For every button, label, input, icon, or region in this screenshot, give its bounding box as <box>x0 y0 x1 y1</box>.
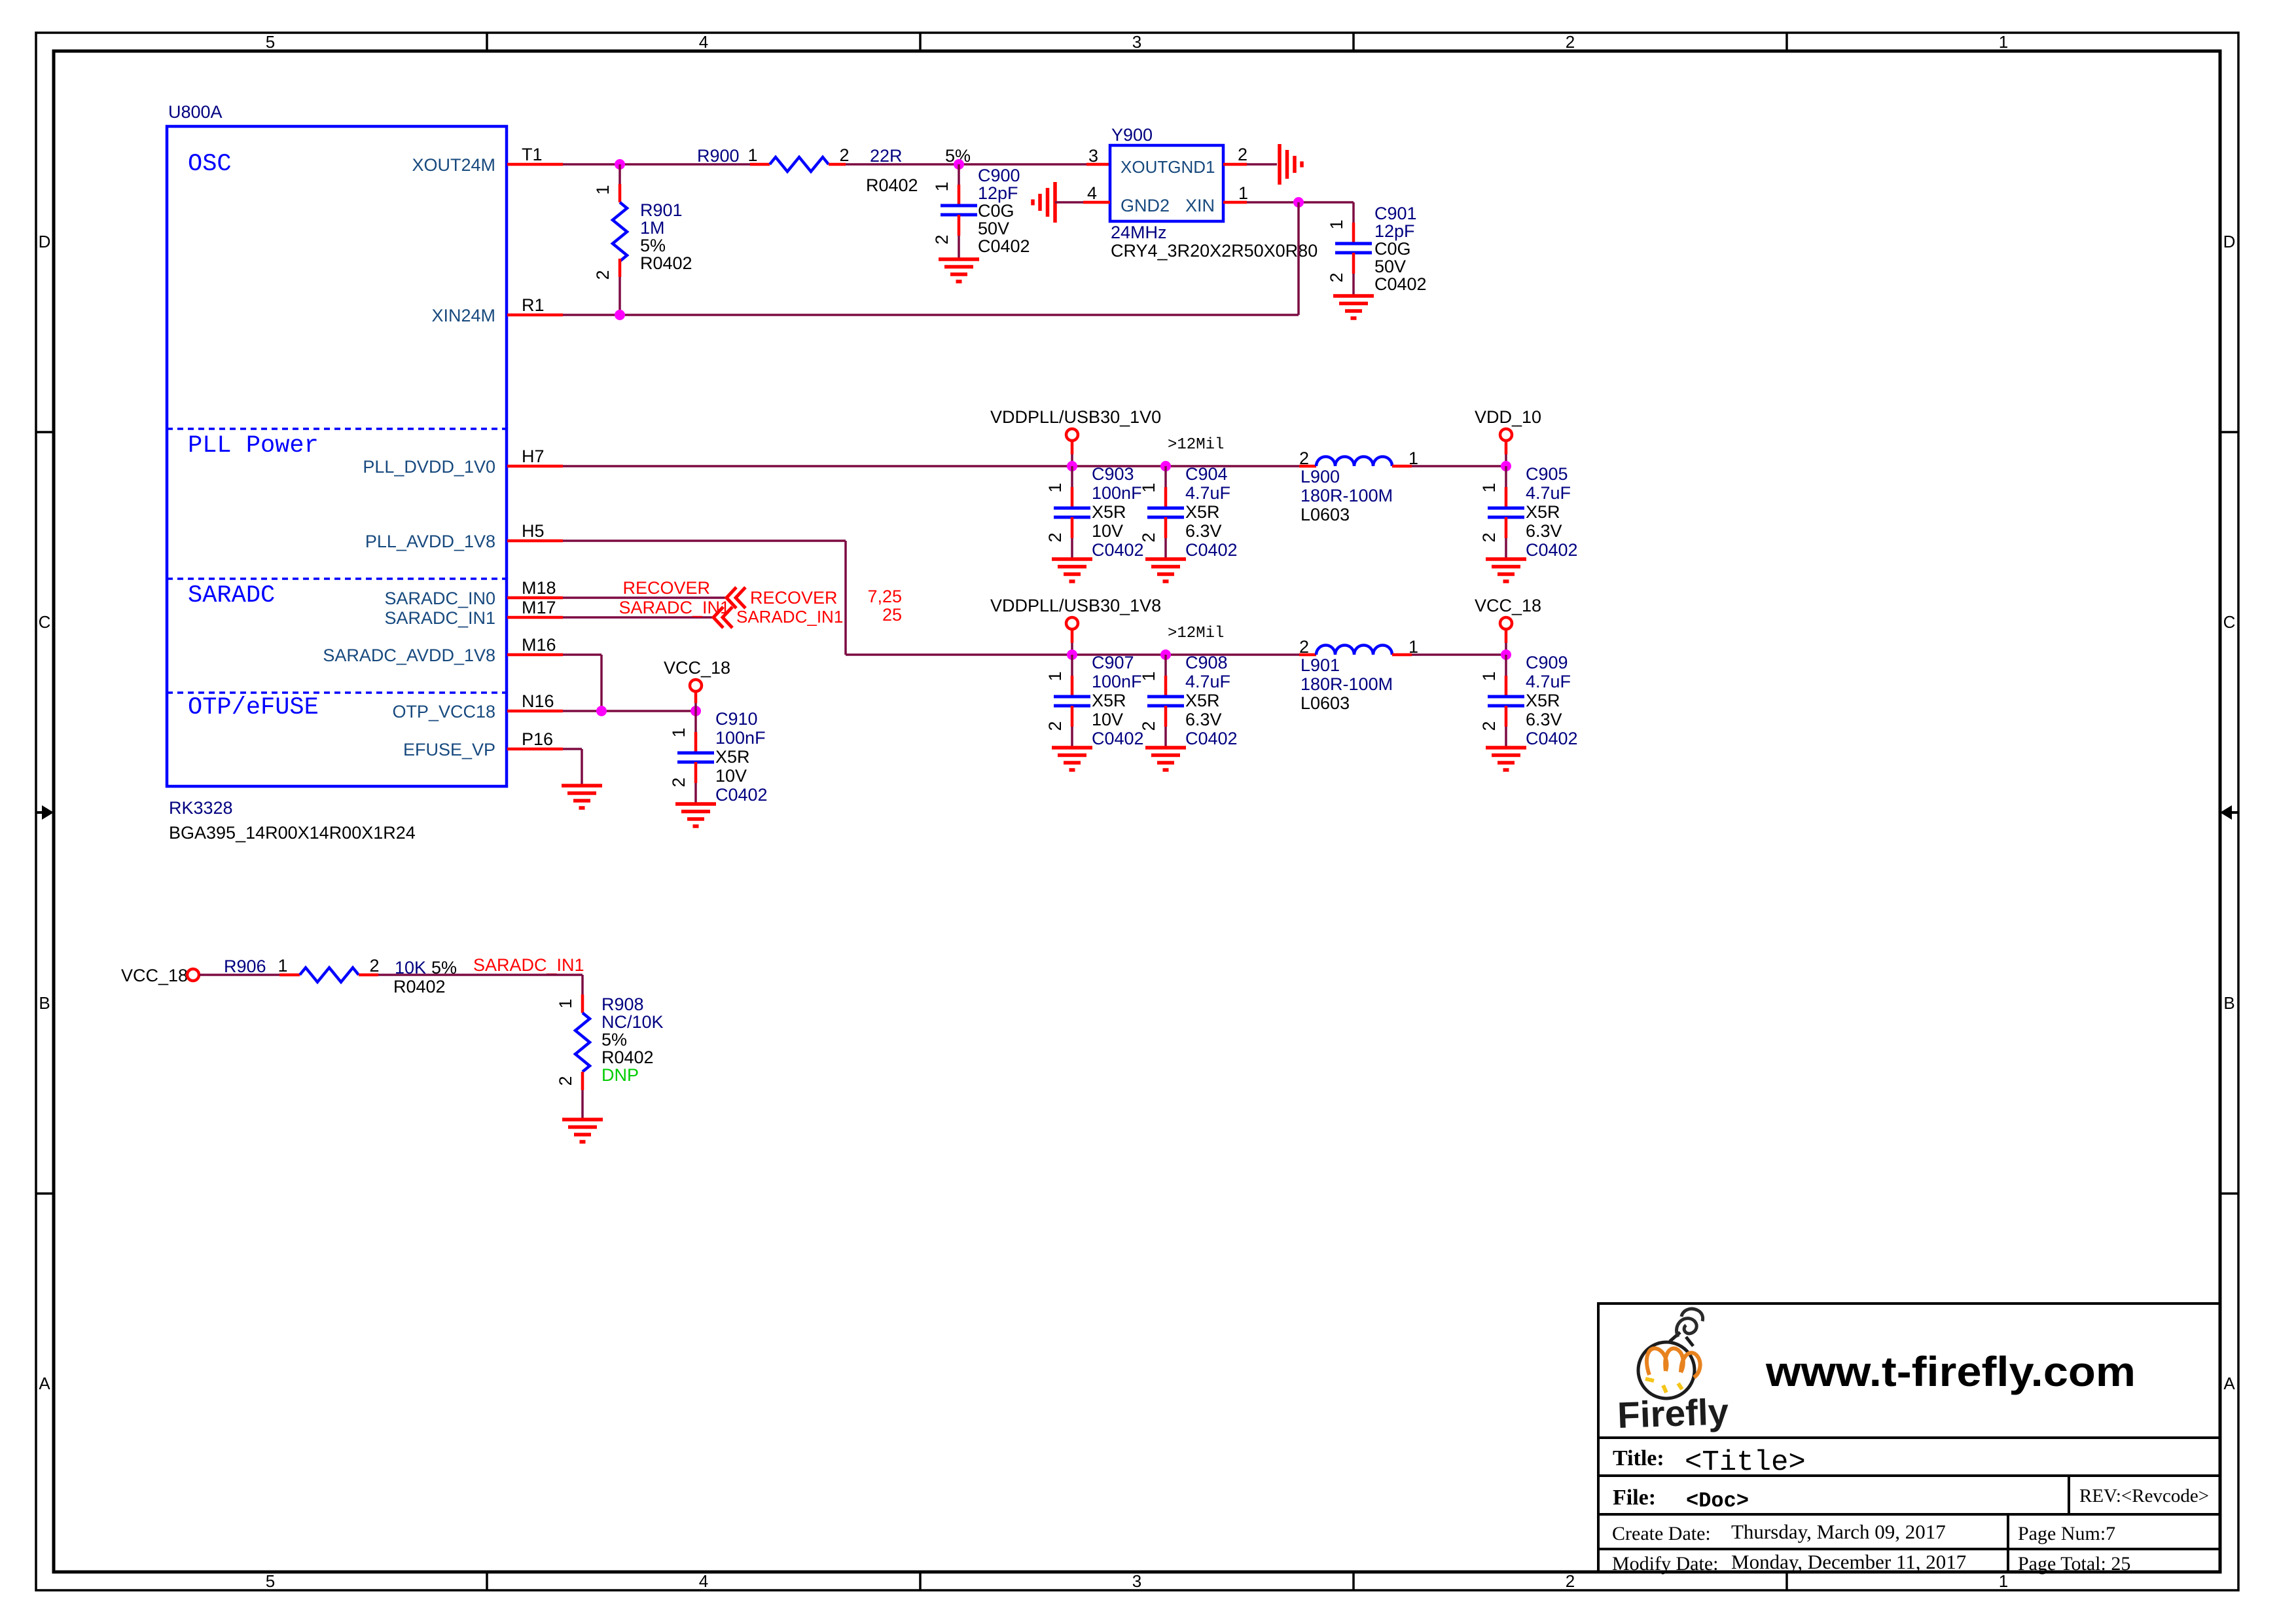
svg-text:5: 5 <box>266 32 275 52</box>
svg-text:C0402: C0402 <box>1092 540 1144 560</box>
svg-text:C900: C900 <box>978 166 1020 185</box>
svg-text:OTP/eFUSE: OTP/eFUSE <box>188 694 319 721</box>
pin H5 PLL_AVDD_1V8 stub <box>507 539 563 543</box>
wire ground to Y900 pin4 <box>1055 201 1083 204</box>
svg-text:2: 2 <box>1045 721 1065 731</box>
svg-text:C0G: C0G <box>978 201 1014 221</box>
pin P16 EFUSE_VP stub <box>507 748 563 751</box>
title block outline <box>1598 1304 2220 1572</box>
junction C905 on rail <box>1501 461 1511 471</box>
resistor R900 left stub <box>750 163 770 166</box>
svg-text:4.7uF: 4.7uF <box>1526 483 1571 503</box>
svg-text:X5R: X5R <box>1185 691 1220 710</box>
svg-text:C0402: C0402 <box>1526 729 1578 748</box>
svg-text:RK3328: RK3328 <box>169 798 233 818</box>
junction VCC_18/C910 <box>691 706 701 716</box>
svg-text:RECOVER: RECOVER <box>750 588 838 608</box>
ground under C907 <box>1052 748 1092 770</box>
row tick <box>36 1192 54 1195</box>
svg-text:6.3V: 6.3V <box>1185 710 1222 729</box>
off-sheet connector SARADC_IN1 chevrons <box>713 607 732 628</box>
svg-text:5: 5 <box>266 1571 275 1591</box>
svg-text:SARADC_IN1: SARADC_IN1 <box>473 955 584 975</box>
svg-text:180R-100M: 180R-100M <box>1300 674 1393 694</box>
junction C903 on rail <box>1067 461 1077 471</box>
pin H7 PLL_DVDD_1V0 stub <box>507 465 563 468</box>
svg-text:1: 1 <box>1238 183 1248 203</box>
junction C909 on rail <box>1501 649 1511 660</box>
capacitor C907 top stub <box>1071 655 1073 697</box>
column tick <box>486 1572 488 1590</box>
svg-text:GND2: GND2 <box>1121 196 1170 215</box>
svg-text:BGA395_14R00X14R00X1R24: BGA395_14R00X14R00X1R24 <box>169 823 416 843</box>
svg-text:D: D <box>2223 232 2236 251</box>
svg-text:B: B <box>2223 993 2234 1013</box>
svg-text:1: 1 <box>1479 483 1499 492</box>
svg-text:PLL Power: PLL Power <box>188 432 319 460</box>
svg-text:50V: 50V <box>978 219 1009 238</box>
capacitor C900 bottom stub <box>958 215 961 259</box>
svg-text:1: 1 <box>932 181 952 191</box>
ground under C903 <box>1052 559 1092 581</box>
Y900 pin 3 stub <box>1086 163 1110 166</box>
svg-text:A: A <box>39 1374 50 1393</box>
svg-text:X5R: X5R <box>1526 691 1560 710</box>
title block row line (title bottom) <box>1598 1474 2220 1477</box>
section divider dashed (PLL Power) <box>167 428 507 430</box>
power port VCC_18 stub (OTP) <box>694 691 698 711</box>
svg-text:6.3V: 6.3V <box>1185 521 1222 541</box>
wire power rail VDDPLL/USB30_1V0 <box>563 465 1299 467</box>
resistor R901 top stub <box>619 164 621 202</box>
row tick <box>2220 431 2238 433</box>
column tick <box>486 33 488 51</box>
capacitor C904 bottom stub <box>1164 517 1168 559</box>
junction XIN node <box>1293 197 1304 208</box>
junction C900 <box>954 159 964 170</box>
svg-text:2: 2 <box>1479 721 1499 731</box>
capacitor C901 bottom stub <box>1352 253 1355 296</box>
svg-text:C0402: C0402 <box>978 236 1030 256</box>
svg-text:R0402: R0402 <box>866 175 918 195</box>
wire PLL_AVDD_1V8 from block <box>563 539 846 542</box>
logo flame yellow accents <box>1645 1379 1682 1393</box>
svg-text:R0402: R0402 <box>601 1048 654 1067</box>
svg-text:4: 4 <box>1087 183 1097 203</box>
column tick <box>1352 33 1355 51</box>
wire VCC_18 to R906 <box>200 974 279 976</box>
svg-text:C905: C905 <box>1526 464 1568 484</box>
logo bulb neck to coil <box>1670 1332 1693 1346</box>
svg-text:X5R: X5R <box>1092 502 1126 522</box>
inductor L901 body <box>1316 646 1392 655</box>
svg-text:VDDPLL/USB30_1V8: VDDPLL/USB30_1V8 <box>990 596 1161 615</box>
svg-text:1M: 1M <box>640 218 665 238</box>
column tick <box>1785 33 1788 51</box>
svg-text:1: 1 <box>556 998 575 1008</box>
svg-text:VDDPLL/USB30_1V0: VDDPLL/USB30_1V0 <box>990 407 1161 427</box>
svg-text:Thursday, March 09, 2017: Thursday, March 09, 2017 <box>1731 1520 1946 1543</box>
svg-text:R901: R901 <box>640 200 683 220</box>
svg-text:2: 2 <box>593 270 613 280</box>
svg-text:5%: 5% <box>640 236 666 255</box>
resistor R908 body <box>575 1013 590 1072</box>
svg-text:2: 2 <box>1139 532 1158 542</box>
svg-text:2: 2 <box>669 777 689 787</box>
svg-text:22R: 22R <box>870 146 903 166</box>
capacitor C900 plates <box>941 206 977 215</box>
svg-text:C: C <box>39 612 51 632</box>
logo flame petals <box>1647 1348 1700 1377</box>
svg-text:Create Date:: Create Date: <box>1612 1523 1711 1544</box>
wire XIN node down to XIN24M <box>1297 202 1300 315</box>
svg-text:2: 2 <box>369 956 379 976</box>
svg-text:1: 1 <box>593 185 613 194</box>
svg-text:>12Mil: >12Mil <box>1168 625 1224 642</box>
svg-text:C907: C907 <box>1092 653 1134 672</box>
svg-text:CRY4_3R20X2R50X0R80: CRY4_3R20X2R50X0R80 <box>1111 241 1318 261</box>
svg-text:4: 4 <box>699 1571 708 1591</box>
svg-text:VDD_10: VDD_10 <box>1475 407 1541 427</box>
title block page divider <box>2007 1514 2009 1572</box>
svg-text:1: 1 <box>1999 32 2008 52</box>
ground under C901 <box>1333 296 1374 318</box>
svg-text:R1: R1 <box>522 295 545 315</box>
capacitor C903 bottom stub <box>1071 517 1074 559</box>
svg-text:R0402: R0402 <box>640 253 692 273</box>
capacitor C910 plates <box>677 753 714 762</box>
capacitor C905 top stub <box>1505 466 1507 508</box>
wire power rail VDDPLL/USB30_1V8 <box>846 653 1299 656</box>
svg-text:<Doc>: <Doc> <box>1686 1489 1749 1513</box>
section divider dashed (OTP/eFUSE) <box>167 691 507 694</box>
svg-text:Monday, December 11, 2017: Monday, December 11, 2017 <box>1731 1550 1966 1573</box>
svg-text:>12Mil: >12Mil <box>1168 436 1224 454</box>
svg-text:File:: File: <box>1613 1486 1656 1510</box>
column tick <box>919 1572 922 1590</box>
svg-text:5%: 5% <box>601 1030 627 1049</box>
wire XIN24M from block to XIN node <box>563 314 1299 316</box>
svg-text:A: A <box>2223 1374 2235 1393</box>
pin M18 SARADC_IN0 stub <box>507 596 563 600</box>
inductor L900 right stub <box>1392 465 1412 468</box>
capacitor C903 plates <box>1054 508 1090 517</box>
wire P16 drop to ground <box>581 749 583 786</box>
svg-text:H7: H7 <box>522 447 545 466</box>
svg-text:L0603: L0603 <box>1300 693 1350 713</box>
svg-text:100nF: 100nF <box>715 728 766 748</box>
svg-text:SARADC_AVDD_1V8: SARADC_AVDD_1V8 <box>323 646 495 665</box>
svg-text:C910: C910 <box>715 709 758 729</box>
svg-text:7,25: 7,25 <box>867 587 902 606</box>
svg-text:6.3V: 6.3V <box>1526 521 1562 541</box>
svg-text:C0G: C0G <box>1374 239 1411 259</box>
capacitor C904 plates <box>1147 508 1184 517</box>
wire SARADC_AVDD_1V8 (M16) <box>563 653 601 656</box>
pin M17 SARADC_IN1 stub <box>507 616 563 619</box>
capacitor C908 top stub <box>1164 655 1167 697</box>
svg-text:C901: C901 <box>1374 204 1417 223</box>
inductor L900 body <box>1316 457 1392 467</box>
svg-text:C: C <box>2223 612 2236 632</box>
resistor R906 left stub <box>279 974 300 977</box>
capacitor C901 top stub <box>1352 202 1355 244</box>
svg-text:U800A: U800A <box>168 102 223 122</box>
ground under C905 <box>1486 559 1526 581</box>
svg-text:C903: C903 <box>1092 464 1134 484</box>
svg-text:www.t-firefly.com: www.t-firefly.com <box>1765 1348 2136 1395</box>
svg-text:3: 3 <box>1088 146 1098 166</box>
wire corner down to R908 <box>581 975 584 1013</box>
wire Y900 pin2 to ground <box>1247 163 1277 166</box>
svg-text:10V: 10V <box>1092 710 1123 729</box>
junction C904 on rail <box>1160 461 1171 471</box>
title block row line (logo bottom) <box>1598 1436 2220 1439</box>
svg-text:VCC_18: VCC_18 <box>121 966 188 985</box>
svg-text:C0402: C0402 <box>715 785 768 805</box>
svg-text:PLL_AVDD_1V8: PLL_AVDD_1V8 <box>365 532 495 551</box>
capacitor C908 plates <box>1147 697 1184 706</box>
capacitor C907 plates <box>1054 697 1090 706</box>
svg-text:Page Num:7: Page Num:7 <box>2018 1523 2115 1544</box>
svg-text:2: 2 <box>556 1076 575 1085</box>
power port VDDPLL/USB30_1V0 circle <box>1066 429 1078 441</box>
capacitor C900 top stub <box>958 164 960 206</box>
svg-text:N16: N16 <box>522 691 554 711</box>
inductor L900 left stub <box>1299 465 1316 468</box>
power port VDDPLL/USB30_1V0 stub <box>1071 441 1074 466</box>
IC U800A body (RK3328 OSC/PLL/SARADC/OTP section) <box>167 126 507 786</box>
capacitor C905 plates <box>1488 508 1524 517</box>
svg-text:<Title>: <Title> <box>1685 1446 1806 1479</box>
ground under C910 <box>675 804 716 826</box>
row tick <box>2220 1192 2238 1195</box>
junction M16/N16 <box>596 706 607 716</box>
ground at Y900 pin 4 <box>1033 182 1055 223</box>
svg-text:3: 3 <box>1132 1571 1141 1591</box>
svg-text:1: 1 <box>1999 1571 2008 1591</box>
svg-text:SARADC_IN0: SARADC_IN0 <box>384 589 495 608</box>
capacitor C901 plates <box>1335 244 1372 253</box>
wire Y900 pin1 to C901 <box>1247 201 1354 204</box>
svg-text:C0402: C0402 <box>1526 540 1578 560</box>
capacitor C909 bottom stub <box>1505 706 1508 748</box>
ground under C909 <box>1486 748 1526 770</box>
svg-text:X5R: X5R <box>1092 691 1126 710</box>
Y900 pin 4 stub <box>1083 201 1110 204</box>
svg-text:SARADC_IN1: SARADC_IN1 <box>384 608 495 628</box>
svg-text:P16: P16 <box>522 729 553 749</box>
wire R900 to C900/Y900 pin3 <box>846 163 1086 166</box>
svg-text:X5R: X5R <box>715 747 750 767</box>
svg-text:L0603: L0603 <box>1300 505 1350 524</box>
junction R901/XIN24M <box>615 310 625 320</box>
svg-text:REV:<Revcode>: REV:<Revcode> <box>2079 1486 2209 1506</box>
junction C908 on rail <box>1160 649 1171 660</box>
pin N16 OTP_VCC18 stub <box>507 710 563 713</box>
resistor R906 right stub <box>359 974 378 977</box>
svg-text:6.3V: 6.3V <box>1526 710 1562 729</box>
pin M16 SARADC_AVDD_1V8 stub <box>507 653 563 657</box>
Y900 pin 2 stub <box>1223 163 1247 166</box>
svg-text:M18: M18 <box>522 578 556 598</box>
column tick <box>1785 1572 1788 1590</box>
svg-text:Y900: Y900 <box>1111 125 1153 145</box>
svg-text:2: 2 <box>1299 448 1309 468</box>
capacitor C910 bottom stub <box>694 762 698 804</box>
ground under C904 <box>1145 559 1186 581</box>
power port VDDPLL/USB30_1V8 stub <box>1071 629 1074 655</box>
svg-text:3: 3 <box>1132 32 1141 52</box>
svg-text:1: 1 <box>1045 483 1065 492</box>
wire L900 to VDD_10 <box>1412 465 1506 467</box>
svg-text:M16: M16 <box>522 635 556 655</box>
svg-text:NC/10K: NC/10K <box>601 1012 664 1032</box>
svg-text:1: 1 <box>1479 671 1499 681</box>
power port VCC_18 circle (OTP) <box>690 680 702 691</box>
svg-text:R0402: R0402 <box>393 977 446 996</box>
svg-text:M17: M17 <box>522 598 556 617</box>
svg-text:1: 1 <box>669 727 689 737</box>
power port VCC_18 circle <box>1500 617 1512 629</box>
svg-text:10V: 10V <box>715 766 747 786</box>
svg-text:R908: R908 <box>601 994 644 1014</box>
resistor R908 bottom stub <box>581 1072 584 1120</box>
svg-text:C908: C908 <box>1185 653 1228 672</box>
svg-text:RECOVER: RECOVER <box>622 578 710 598</box>
title block row line (create bottom) <box>1598 1548 2220 1550</box>
svg-text:2: 2 <box>1566 32 1575 52</box>
capacitor C910 top stub <box>694 711 697 753</box>
pin T1 XOUT24M stub <box>507 163 563 166</box>
svg-text:C0402: C0402 <box>1185 729 1238 748</box>
svg-text:EFUSE_VP: EFUSE_VP <box>403 740 495 759</box>
ground under C900 <box>939 259 979 282</box>
column tick <box>919 33 922 51</box>
svg-text:D: D <box>39 232 51 251</box>
svg-text:OTP_VCC18: OTP_VCC18 <box>392 702 495 721</box>
capacitor C904 top stub <box>1164 466 1167 508</box>
svg-text:4.7uF: 4.7uF <box>1526 672 1571 691</box>
inductor L901 left stub <box>1299 653 1316 657</box>
capacitor C909 top stub <box>1505 655 1507 697</box>
logo bulb outline <box>1638 1342 1695 1398</box>
svg-text:2: 2 <box>932 234 952 244</box>
svg-text:Title:: Title: <box>1613 1446 1664 1470</box>
svg-text:XOUT24M: XOUT24M <box>412 155 495 175</box>
svg-text:4: 4 <box>699 32 708 52</box>
resistor R901 body <box>613 202 627 261</box>
inductor L901 right stub <box>1392 653 1412 657</box>
wire SARADC_IN0 (M18) <box>563 596 726 599</box>
junction T1/R901 <box>615 159 625 170</box>
svg-text:R906: R906 <box>224 957 266 976</box>
wire R906 to R908 <box>378 974 583 976</box>
svg-text:100nF: 100nF <box>1092 672 1142 691</box>
svg-text:XOUTGND1: XOUTGND1 <box>1121 157 1215 177</box>
svg-text:2: 2 <box>839 145 849 165</box>
row tick <box>36 431 54 433</box>
title block REV divider <box>2068 1476 2070 1514</box>
resistor R900 body <box>770 157 829 172</box>
capacitor C905 bottom stub <box>1505 517 1508 559</box>
section divider dashed (SARADC) <box>167 577 507 580</box>
svg-text:C0402: C0402 <box>1374 274 1427 294</box>
ground at Y900 pin 2 <box>1280 144 1302 185</box>
svg-text:12pF: 12pF <box>1374 221 1415 241</box>
junction C907 on rail <box>1067 649 1077 660</box>
svg-text:25: 25 <box>882 605 902 625</box>
svg-text:1: 1 <box>1139 483 1158 492</box>
svg-text:L900: L900 <box>1300 467 1340 486</box>
wire SARADC_IN1 (M17) <box>563 616 713 619</box>
svg-text:SARADC: SARADC <box>188 582 275 610</box>
resistor R901 bottom stub <box>619 259 622 315</box>
svg-text:1: 1 <box>1327 219 1346 229</box>
svg-text:4.7uF: 4.7uF <box>1185 483 1230 503</box>
power port VDDPLL/USB30_1V8 circle <box>1066 617 1078 629</box>
svg-text:24MHz: 24MHz <box>1111 223 1167 242</box>
svg-text:Firefly: Firefly <box>1617 1391 1729 1436</box>
svg-text:C904: C904 <box>1185 464 1228 484</box>
svg-text:L901: L901 <box>1300 655 1340 675</box>
wire L901 to VCC_18 <box>1412 653 1506 656</box>
off-sheet connector RECOVER chevrons <box>726 587 745 608</box>
svg-text:VCC_18: VCC_18 <box>1475 596 1541 615</box>
svg-text:XIN: XIN <box>1185 196 1215 215</box>
svg-text:R900: R900 <box>697 146 740 166</box>
power port VDD_10 stub <box>1505 441 1508 466</box>
column tick <box>1352 1572 1355 1590</box>
svg-text:2: 2 <box>1299 637 1309 657</box>
capacitor C907 bottom stub <box>1071 706 1074 748</box>
logo coil <box>1677 1309 1703 1337</box>
resistor R900 right stub <box>829 163 846 166</box>
svg-text:H5: H5 <box>522 521 545 541</box>
svg-text:C0402: C0402 <box>1185 540 1238 560</box>
svg-text:1: 1 <box>278 956 287 976</box>
title block row line (file bottom) <box>1598 1513 2220 1516</box>
svg-text:Page Total: 25: Page Total: 25 <box>2018 1553 2130 1575</box>
svg-text:100nF: 100nF <box>1092 483 1142 503</box>
wire M16 drop to OTP_VCC18 net <box>600 655 603 711</box>
svg-text:12pF: 12pF <box>978 183 1018 203</box>
ground under EFUSE_VP <box>562 786 602 808</box>
power port VCC_18 circle (R906) <box>187 969 199 981</box>
svg-text:2: 2 <box>1479 532 1499 542</box>
svg-text:XIN24M: XIN24M <box>431 306 495 325</box>
wire vertical drop H5 to rail 2 <box>844 541 847 655</box>
svg-text:DNP: DNP <box>601 1065 639 1085</box>
resistor R906 body <box>300 968 359 982</box>
capacitor C903 top stub <box>1071 466 1073 508</box>
svg-text:X5R: X5R <box>1185 502 1220 522</box>
capacitor C909 plates <box>1488 697 1524 706</box>
svg-text:B: B <box>39 993 50 1013</box>
svg-text:50V: 50V <box>1374 257 1406 276</box>
svg-text:4.7uF: 4.7uF <box>1185 672 1230 691</box>
svg-text:C909: C909 <box>1526 653 1568 672</box>
ground under C908 <box>1145 748 1186 770</box>
svg-text:1: 1 <box>1139 671 1158 681</box>
svg-text:2: 2 <box>1045 532 1065 542</box>
svg-text:10V: 10V <box>1092 521 1123 541</box>
svg-text:2: 2 <box>1327 272 1346 282</box>
left center marker arrow <box>36 805 54 820</box>
wire XOUT24M to R901/R900 <box>563 163 750 166</box>
capacitor C908 bottom stub <box>1164 706 1168 748</box>
ground under R908 <box>562 1120 603 1142</box>
